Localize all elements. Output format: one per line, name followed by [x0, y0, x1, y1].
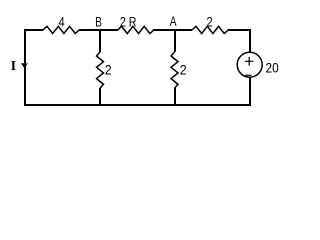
svg-text:2: 2: [180, 62, 187, 78]
minus sign: [245, 74, 252, 76]
wire bottom horizontal: [24, 104, 251, 106]
wire node A branch lower: [174, 88, 176, 104]
wire top horizontal between 4-ohm and 2R through node B: [79, 29, 118, 31]
svg-text:20: 20: [266, 60, 279, 76]
current arrow head: [21, 63, 28, 68]
wire right vertical lower: [249, 78, 251, 106]
resistor 2R zigzag: [118, 26, 154, 33]
plus sign: [245, 57, 253, 66]
resistor 2-ohm top-right zigzag: [192, 26, 228, 33]
wire node B branch lower: [99, 88, 101, 104]
svg-text:4: 4: [59, 14, 65, 30]
svg-text:2: 2: [105, 62, 112, 78]
wire top horizontal right segment: [228, 29, 251, 31]
voltage source 20V circle: [237, 52, 262, 77]
svg-text:I: I: [11, 59, 16, 74]
svg-text:2: 2: [207, 14, 213, 30]
wire node B branch upper: [99, 31, 101, 52]
wire top horizontal left segment: [24, 29, 43, 31]
resistor 2-ohm node A vertical zigzag: [171, 52, 178, 88]
resistor 4-ohm zigzag: [43, 26, 79, 33]
wire left vertical: [24, 29, 26, 106]
wire node A branch upper: [174, 31, 176, 52]
resistor 2-ohm node B vertical zigzag: [97, 52, 104, 88]
svg-text:A: A: [170, 13, 177, 29]
svg-text:B: B: [95, 14, 102, 30]
wire top horizontal between 2R and 2-ohm through node A: [153, 29, 192, 31]
wire right vertical upper: [249, 29, 251, 52]
svg-text:2 R: 2 R: [120, 14, 137, 30]
